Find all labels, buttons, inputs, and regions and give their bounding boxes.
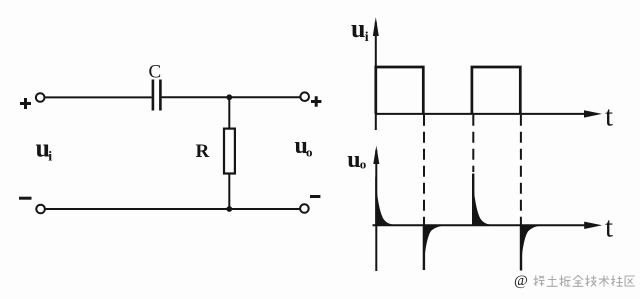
svg-text:@: @ (514, 273, 528, 289)
svg-text:o: o (360, 157, 367, 172)
svg-text:u: u (351, 14, 365, 43)
svg-text:i: i (48, 149, 52, 164)
svg-text:R: R (196, 141, 210, 162)
svg-text:o: o (306, 144, 313, 159)
svg-text:t: t (605, 212, 613, 244)
svg-text:t: t (605, 101, 613, 133)
svg-text:i: i (365, 30, 369, 45)
svg-text:C: C (149, 62, 162, 83)
svg-text:u: u (347, 147, 360, 173)
